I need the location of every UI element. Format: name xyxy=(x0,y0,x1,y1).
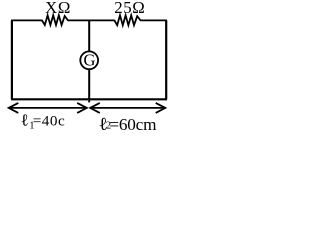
wire bottom xyxy=(11,98,167,100)
svg-text:ℓ2=60cm: ℓ2=60cm xyxy=(99,114,158,134)
junction tick below bottom wire xyxy=(88,99,90,102)
wire from top junction down to galvanometer xyxy=(88,20,90,52)
svg-text:G: G xyxy=(83,50,95,69)
svg-text:XΩ: XΩ xyxy=(45,0,71,17)
wire from galvanometer down to bottom wire xyxy=(88,69,90,100)
top wire with resistor R1 (X ohm) and resistor R2 (25 ohm) xyxy=(11,15,167,25)
wire right side xyxy=(165,20,167,99)
dimension arrow l1 (double headed) xyxy=(9,107,87,109)
dimension arrow l2 (double headed) xyxy=(90,107,165,109)
galvanometer G circle xyxy=(80,51,98,69)
wire left side xyxy=(11,20,13,99)
svg-text:ℓ1=40c: ℓ1=40c xyxy=(21,110,66,131)
svg-text:25Ω: 25Ω xyxy=(114,0,145,17)
